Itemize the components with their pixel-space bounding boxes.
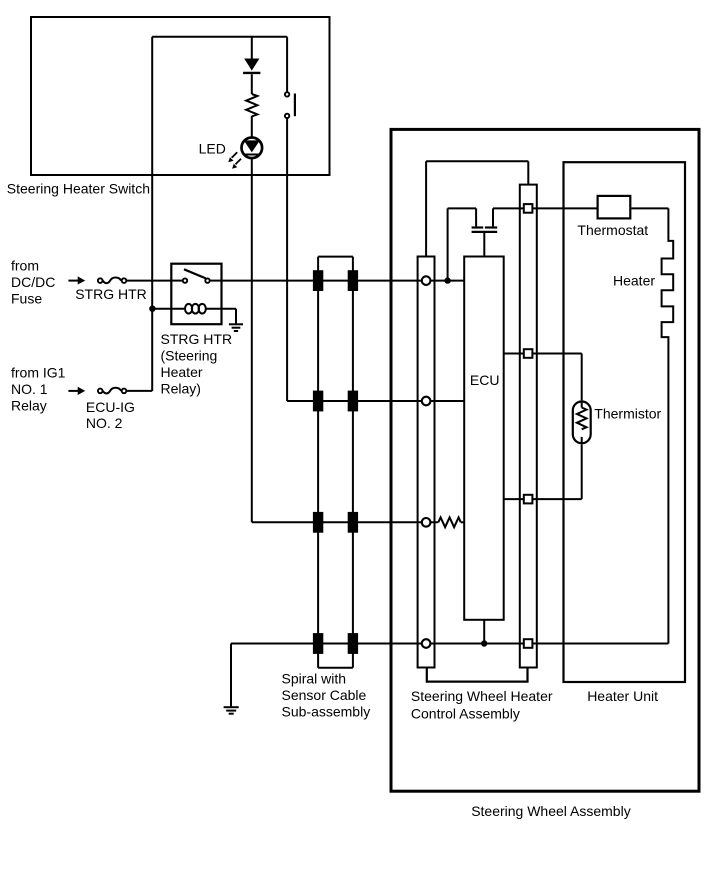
svg-text:LED: LED xyxy=(199,141,226,157)
svg-text:ECU-IG: ECU-IG xyxy=(86,399,135,415)
svg-text:Fuse: Fuse xyxy=(11,291,42,307)
svg-text:Control Assembly: Control Assembly xyxy=(411,705,520,721)
svg-text:Relay: Relay xyxy=(11,397,47,413)
svg-text:DC/DC: DC/DC xyxy=(11,274,55,290)
svg-text:ECU: ECU xyxy=(470,372,500,388)
svg-text:Steering Heater Switch: Steering Heater Switch xyxy=(7,181,150,197)
svg-text:Sub-assembly: Sub-assembly xyxy=(282,704,371,720)
svg-text:Spiral with: Spiral with xyxy=(282,670,347,686)
svg-text:Heater: Heater xyxy=(161,364,203,380)
svg-text:from: from xyxy=(11,257,39,273)
svg-text:Thermistor: Thermistor xyxy=(594,405,661,421)
svg-text:Thermostat: Thermostat xyxy=(577,222,648,238)
svg-text:Sensor Cable: Sensor Cable xyxy=(282,687,367,703)
svg-text:Steering Wheel Heater: Steering Wheel Heater xyxy=(411,688,553,704)
svg-text:NO. 2: NO. 2 xyxy=(86,415,123,431)
svg-text:Heater Unit: Heater Unit xyxy=(587,688,658,704)
svg-text:from IG1: from IG1 xyxy=(11,364,66,380)
svg-text:STRG HTR: STRG HTR xyxy=(75,286,147,302)
svg-text:STRG HTR: STRG HTR xyxy=(161,331,233,347)
svg-text:(Steering: (Steering xyxy=(161,348,218,364)
svg-text:Relay): Relay) xyxy=(161,381,201,397)
svg-text:NO. 1: NO. 1 xyxy=(11,381,48,397)
svg-text:Steering Wheel Assembly: Steering Wheel Assembly xyxy=(471,803,631,819)
svg-text:Heater: Heater xyxy=(613,272,655,288)
